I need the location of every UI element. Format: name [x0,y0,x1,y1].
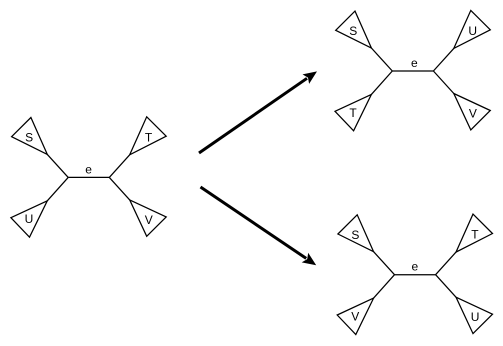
top-right tree: branch to subtree U (wire) [433,48,453,71]
top-right tree: subtree triangle S [336,11,372,48]
svg-text:U: U [25,212,34,226]
svg-text:U: U [468,24,477,38]
svg-text:V: V [145,213,153,227]
bottom-right tree: branch to subtree T (wire) [436,252,456,275]
bottom-right tree: subtree triangle T [456,214,493,252]
svg-text:U: U [471,310,480,324]
svg-text:T: T [349,106,357,120]
arrow to top-right tree (head) [303,71,318,84]
arrow to top-right tree (shaft) [199,78,307,153]
bottom-right tree: subtree triangle U [456,297,493,333]
left tree: internal edge e (wire) [68,176,109,178]
top-right tree: branch to subtree T (wire) [371,71,392,94]
left tree: branch to subtree S (wire) [47,154,68,177]
svg-text:e: e [411,56,418,70]
svg-text:S: S [25,131,33,145]
bottom-right tree: branch to subtree U (wire) [436,275,456,298]
left tree: branch to subtree U (wire) [47,177,68,200]
top-right tree: branch to subtree S (wire) [371,48,392,71]
left tree: branch to subtree T (wire) [109,155,129,178]
bottom-right tree: branch to subtree S (wire) [374,252,395,275]
top-right tree: internal edge e (wire) [392,70,433,72]
svg-text:V: V [351,310,359,324]
svg-text:V: V [469,107,477,121]
left tree: subtree triangle V [130,200,167,236]
top-right tree: subtree triangle U [454,10,491,48]
svg-text:S: S [349,24,357,38]
svg-text:e: e [85,162,92,176]
bottom-right tree: branch to subtree V (wire) [374,275,395,298]
svg-text:S: S [351,228,359,242]
svg-text:e: e [412,260,419,274]
bottom-right tree: subtree triangle S [338,215,374,252]
bottom-right tree: internal edge e (wire) [395,274,436,276]
svg-text:T: T [145,130,153,144]
left tree: subtree triangle S [12,118,48,155]
arrow to bottom-right tree (shaft) [201,187,307,258]
top-right tree: branch to subtree V (wire) [433,71,453,94]
top-right tree: subtree triangle V [454,94,491,130]
left tree: subtree triangle U [11,201,47,237]
bottom-right tree: subtree triangle V [337,298,373,334]
left tree: subtree triangle T [130,117,167,155]
top-right tree: subtree triangle T [335,94,371,130]
left tree: branch to subtree V (wire) [109,177,129,200]
arrow to bottom-right tree (head) [302,253,317,265]
svg-text:T: T [471,228,479,242]
